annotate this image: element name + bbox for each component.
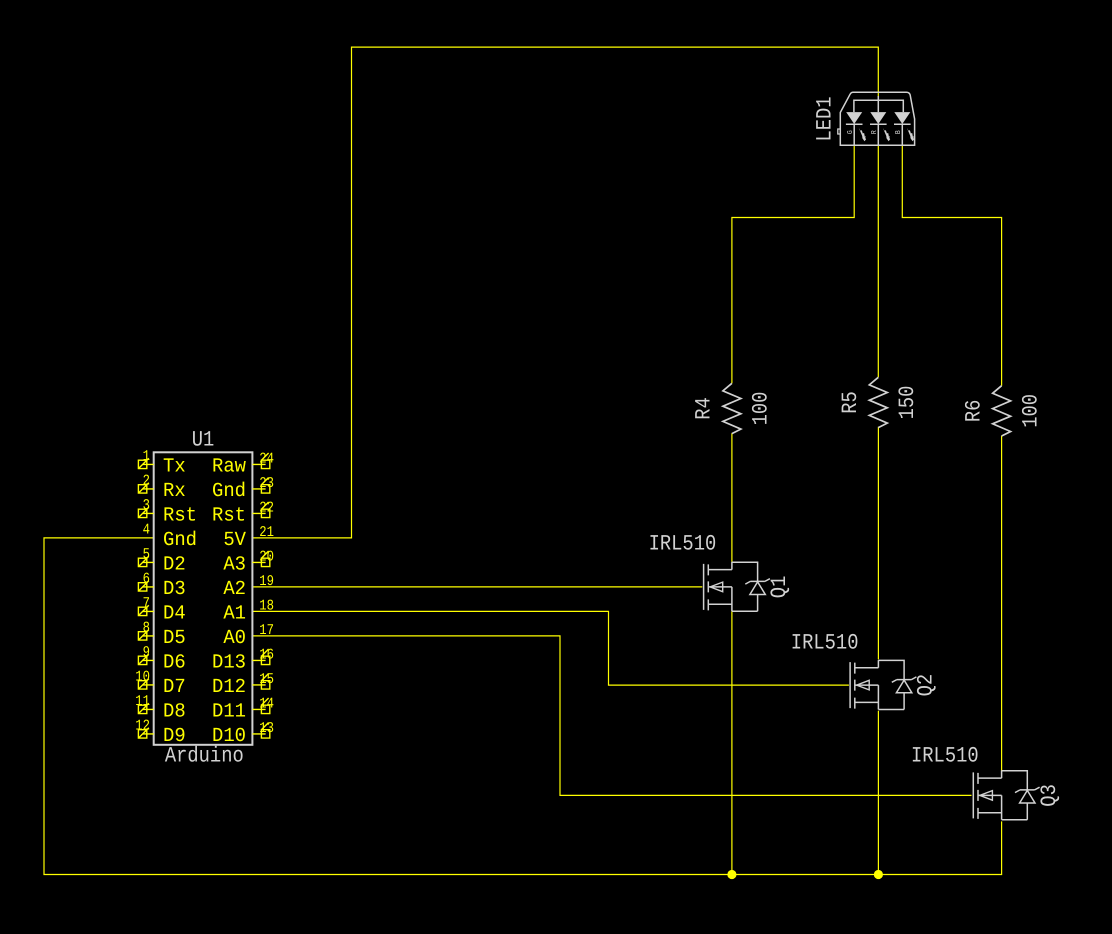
svg-text:Rst: Rst [212, 503, 246, 526]
svg-text:R4: R4 [692, 397, 717, 420]
svg-text:Gnd: Gnd [163, 528, 197, 551]
svg-text:17: 17 [259, 623, 274, 639]
svg-text:G: G [846, 130, 855, 134]
svg-text:D5: D5 [163, 626, 186, 649]
svg-text:12: 12 [135, 719, 150, 735]
svg-text:D7: D7 [163, 675, 186, 698]
svg-text:IRL510: IRL510 [791, 631, 859, 656]
svg-text:R: R [871, 130, 879, 134]
svg-text:A2: A2 [223, 577, 246, 600]
svg-text:R5: R5 [838, 391, 863, 414]
svg-text:IRL510: IRL510 [911, 743, 979, 768]
svg-text:LED1: LED1 [813, 96, 838, 141]
svg-text:10: 10 [135, 670, 150, 686]
svg-text:R6: R6 [961, 400, 986, 423]
svg-text:Rx: Rx [163, 479, 186, 502]
svg-text:5V: 5V [223, 528, 246, 551]
svg-text:Gnd: Gnd [212, 479, 246, 502]
svg-text:Tx: Tx [163, 454, 186, 477]
svg-text:100: 100 [749, 392, 774, 426]
svg-text:Raw: Raw [212, 454, 246, 477]
svg-text:21: 21 [259, 525, 274, 541]
svg-text:D11: D11 [212, 699, 246, 722]
svg-text:D2: D2 [163, 552, 186, 575]
svg-text:B: B [895, 130, 903, 134]
svg-text:A1: A1 [223, 601, 246, 624]
svg-text:11: 11 [135, 694, 150, 710]
svg-text:Arduino: Arduino [165, 744, 244, 769]
svg-text:IRL510: IRL510 [649, 532, 717, 557]
svg-text:D3: D3 [163, 577, 186, 600]
svg-text:Q1: Q1 [767, 576, 792, 599]
svg-text:Rst: Rst [163, 503, 197, 526]
svg-text:A0: A0 [223, 626, 246, 649]
svg-text:100: 100 [1018, 394, 1043, 428]
svg-text:19: 19 [259, 574, 274, 590]
svg-text:18: 18 [259, 599, 274, 615]
svg-text:A3: A3 [223, 552, 246, 575]
svg-text:4: 4 [143, 523, 150, 539]
svg-text:D12: D12 [212, 675, 246, 698]
svg-text:Q3: Q3 [1037, 784, 1062, 807]
svg-text:D6: D6 [163, 650, 186, 673]
svg-text:D13: D13 [212, 650, 246, 673]
svg-text:U1: U1 [192, 427, 215, 452]
svg-text:150: 150 [895, 386, 920, 420]
svg-text:D8: D8 [163, 699, 186, 722]
svg-text:Q2: Q2 [914, 674, 939, 697]
svg-text:D4: D4 [163, 601, 186, 624]
